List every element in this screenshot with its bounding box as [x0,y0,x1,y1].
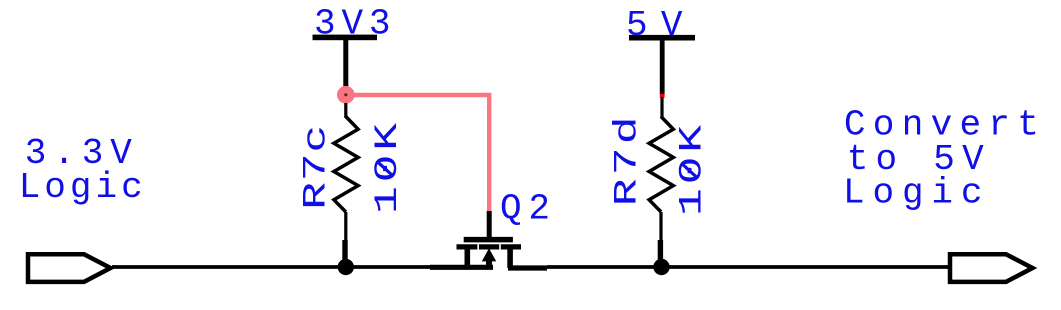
slashed-zero stroke (R7d value) [682,163,699,178]
slashed-zero stroke (R7c value) [377,161,394,176]
resistor R7c [334,117,358,268]
net mark (red, 5V stem) [660,94,665,98]
wire (Q2 drain to output) [547,265,950,269]
power symbol 3V3 [313,35,378,96]
power symbol 5V [629,35,695,94]
svg-text:10K: 10K [370,123,406,214]
svg-text:10K: 10K [674,125,710,216]
svg-text:R7d: R7d [609,116,645,206]
junction (node A, 3.3V line) [338,259,354,275]
junction (node B, 5V line) [653,259,669,275]
svg-text:3V3: 3V3 [314,3,391,44]
svg-text:Logic: Logic [843,172,983,213]
wire (input to Q2 source) [112,265,432,269]
transistor Q2 (N-MOSFET) [430,240,547,268]
connector (5V logic output) [950,254,1033,282]
svg-text:Logic: Logic [19,167,143,208]
resistor R7d [649,117,673,268]
wire (5V to R7d pin 1) [660,97,663,118]
wire (3V3 node to R7c pin 1) [344,103,347,118]
wire (gate net, highlighted) [346,95,489,213]
net junction dot (3V3 node, highlighted) [337,86,355,104]
connector (3.3V logic input) [28,254,111,282]
wire (gate lead of Q2) [487,211,492,238]
svg-text:R7c: R7c [298,125,334,210]
